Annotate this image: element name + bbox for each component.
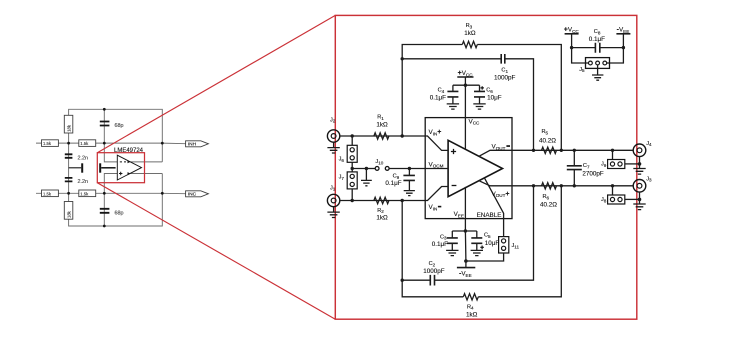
jumper J11 bbox=[499, 237, 520, 253]
wire VIN- rail bbox=[340, 200, 425, 202]
svg-text:1.5k: 1.5k bbox=[43, 191, 52, 196]
svg-text:1.5k: 1.5k bbox=[80, 141, 89, 146]
connector J1 bbox=[327, 185, 339, 206]
node C9 branch bbox=[408, 167, 411, 170]
node VEE decoupling bbox=[464, 229, 467, 232]
svg-text:LME49724: LME49724 bbox=[114, 148, 144, 154]
wire C2 loop right bbox=[435, 186, 534, 280]
resistor 1.5k input1 left bbox=[42, 140, 59, 147]
svg-text:2.2n: 2.2n bbox=[78, 179, 89, 185]
wire C2 loop bbox=[402, 201, 430, 281]
wire J6 branch vertical bbox=[351, 136, 353, 145]
node R3 join bbox=[560, 149, 563, 152]
wire R3 loop right bbox=[477, 45, 561, 151]
wire op-amp top output bbox=[130, 161, 162, 163]
svg-text:1kΩ: 1kΩ bbox=[464, 30, 476, 37]
ground below J3 bbox=[633, 192, 645, 210]
svg-text:2.2n: 2.2n bbox=[78, 155, 89, 161]
svg-text:1kΩ: 1kΩ bbox=[466, 311, 478, 318]
resistor 1.5k input1 right bbox=[79, 140, 96, 147]
connector flag INC bbox=[186, 191, 209, 198]
plus input sign bbox=[451, 149, 456, 154]
svg-text:J11: J11 bbox=[512, 243, 520, 249]
connector J4 bbox=[633, 141, 652, 157]
capacitor C6 bbox=[473, 85, 501, 109]
node C2 join bbox=[532, 184, 535, 187]
svg-text:C1: C1 bbox=[501, 68, 508, 74]
svg-text:R5: R5 bbox=[542, 129, 549, 135]
node VIN- / J7 branch bbox=[351, 199, 354, 202]
wire INH tap bbox=[162, 142, 185, 145]
svg-text:R6: R6 bbox=[543, 194, 550, 200]
power +VCC entry bbox=[564, 26, 580, 47]
node VCC decoupling bbox=[464, 84, 467, 87]
wire op-amp bottom output bbox=[130, 173, 162, 175]
wire J9 to J4 ground bbox=[625, 163, 640, 165]
wire input line 1 bbox=[36, 142, 162, 144]
wire VEE node to caps bbox=[452, 230, 477, 232]
node +VCC entry bbox=[570, 46, 573, 49]
wire lower box right edge to output bbox=[161, 174, 163, 194]
zoom diagonal bottom bbox=[97, 183, 335, 320]
node C1 join bbox=[532, 149, 535, 152]
svg-text:VOUT+: VOUT+ bbox=[492, 191, 510, 198]
svg-text:1kΩ: 1kΩ bbox=[376, 121, 388, 128]
capacitor C3 bbox=[432, 231, 459, 256]
wire J8 to J3 ground bbox=[625, 198, 640, 200]
wire R3 loop bbox=[402, 45, 462, 137]
wire lower feedback loop bottom edge bbox=[69, 193, 163, 226]
node VIN- feedback bbox=[401, 199, 404, 202]
pin VEE bbox=[454, 187, 466, 261]
wire op-amp top input bbox=[104, 143, 117, 162]
resistor R4 bbox=[463, 294, 478, 319]
zoom rectangle small bbox=[97, 153, 144, 183]
svg-text:VIN+: VIN+ bbox=[429, 129, 442, 136]
svg-text:1.5k: 1.5k bbox=[43, 141, 52, 146]
svg-text:-VEE: -VEE bbox=[617, 26, 630, 33]
svg-text:10μF: 10μF bbox=[487, 95, 502, 102]
capacitor 2.2n upper bbox=[65, 154, 88, 161]
jumper pads J10 bbox=[375, 159, 389, 170]
node VIN+ feedback bbox=[401, 134, 404, 137]
node J8 tap bbox=[611, 184, 614, 187]
svg-text:ENABLE: ENABLE bbox=[477, 212, 502, 219]
power -VEE entry bbox=[616, 26, 630, 47]
ground at VOCM bbox=[361, 169, 372, 186]
svg-text:VCC: VCC bbox=[469, 118, 481, 125]
wire upper box right edge to output bbox=[161, 143, 163, 162]
svg-text:0.1μF: 0.1μF bbox=[385, 180, 401, 187]
pin VIN- bbox=[425, 187, 448, 212]
svg-text:C2: C2 bbox=[429, 261, 436, 267]
jumper J6 bbox=[339, 145, 358, 163]
svg-text:+VCC: +VCC bbox=[564, 26, 580, 33]
capacitor C2 bbox=[423, 261, 445, 285]
svg-text:C3: C3 bbox=[440, 234, 447, 240]
svg-text:R3: R3 bbox=[466, 23, 473, 29]
pin VOUT- bbox=[479, 144, 512, 157]
wire J6 to VOCM bbox=[352, 162, 366, 168]
svg-text:J8: J8 bbox=[601, 197, 607, 203]
svg-text:J10: J10 bbox=[375, 159, 383, 165]
wire op-amp bottom input bbox=[104, 174, 117, 194]
minus input sign bbox=[452, 185, 457, 187]
wire center 2.2n chain bbox=[68, 143, 70, 193]
pin VCC bbox=[465, 85, 480, 149]
svg-text:INH: INH bbox=[188, 142, 197, 148]
resistor 18k lower bbox=[64, 202, 73, 220]
svg-text:C6: C6 bbox=[486, 88, 493, 94]
resistor 1.5k input2 right bbox=[79, 190, 96, 197]
wire J7 verticals bbox=[351, 169, 353, 201]
svg-text:VIN: VIN bbox=[429, 204, 438, 211]
op-amp box bbox=[425, 118, 512, 219]
svg-text:1.5k: 1.5k bbox=[80, 191, 89, 196]
wire VOUT+ rail bbox=[512, 185, 633, 187]
node C1 tap bbox=[401, 57, 404, 60]
svg-text:40.2Ω: 40.2Ω bbox=[540, 201, 557, 208]
svg-text:J2: J2 bbox=[330, 117, 336, 123]
node C7 top bbox=[573, 149, 576, 152]
node J6 J7 VOCM junction bbox=[351, 167, 354, 170]
wire VCC node to caps bbox=[453, 84, 480, 86]
svg-text:R1: R1 bbox=[377, 115, 384, 121]
svg-text:INC: INC bbox=[188, 192, 197, 198]
wire -VEE to J5 bbox=[607, 48, 624, 63]
svg-text:R2: R2 bbox=[377, 208, 384, 214]
power -VEE below op-amp bbox=[457, 261, 475, 278]
jumper J9 bbox=[601, 150, 625, 168]
svg-text:VOCM: VOCM bbox=[429, 161, 444, 168]
zoom rectangle big bbox=[335, 15, 637, 319]
svg-text:1kΩ: 1kΩ bbox=[376, 215, 388, 222]
node J3 shield bbox=[638, 198, 642, 202]
wire upper feedback loop top edge bbox=[69, 109, 163, 143]
ground below J5 bbox=[592, 65, 603, 80]
pin VIN+ bbox=[425, 129, 448, 151]
node J4 shield bbox=[638, 162, 642, 166]
connector J2 bbox=[327, 117, 339, 142]
svg-text:18k: 18k bbox=[67, 124, 72, 132]
wire C1 loop left bbox=[402, 58, 501, 60]
capacitor 2.2n lower bbox=[65, 178, 88, 185]
capacitor C5 bbox=[471, 231, 500, 256]
svg-text:J4: J4 bbox=[646, 141, 652, 147]
wire INC tap bbox=[162, 192, 185, 194]
wire vertical 68p branch lower bbox=[103, 193, 105, 226]
svg-text:C8: C8 bbox=[594, 29, 601, 35]
capacitor 68p upper bbox=[100, 122, 124, 130]
resistor 18k upper bbox=[64, 115, 73, 133]
ground below J2 bbox=[327, 142, 339, 153]
wire VIN+ rail bbox=[340, 135, 425, 137]
node -VEE entry bbox=[622, 46, 625, 49]
capacitor C9 bbox=[385, 169, 415, 196]
svg-text:0.1μF: 0.1μF bbox=[589, 36, 605, 43]
svg-text:40.2Ω: 40.2Ω bbox=[539, 138, 556, 145]
jumper J8 bbox=[601, 186, 625, 204]
wire R4 loop right bbox=[478, 186, 561, 297]
capacitor C7 bbox=[567, 150, 604, 186]
svg-text:R4: R4 bbox=[467, 304, 474, 310]
op-amp small triangle bbox=[117, 155, 141, 180]
wire vertical 68p branch upper bbox=[103, 109, 105, 143]
svg-text:J6: J6 bbox=[339, 157, 345, 163]
svg-text:2700pF: 2700pF bbox=[582, 170, 604, 177]
capacitor C4 bbox=[430, 85, 459, 109]
svg-text:10μF: 10μF bbox=[485, 240, 500, 247]
power +VCC above op-amp bbox=[457, 70, 473, 85]
node R4 join bbox=[560, 184, 563, 187]
ground below J1 bbox=[327, 207, 339, 218]
capacitor vocm right plate bbox=[99, 163, 115, 172]
svg-text:VEE: VEE bbox=[454, 211, 464, 218]
resistor R3 bbox=[462, 23, 477, 48]
svg-text:J7: J7 bbox=[339, 175, 345, 181]
node C2 corner bbox=[401, 279, 404, 282]
zoom diagonal top bbox=[97, 15, 335, 152]
node dots small schematic bbox=[67, 108, 164, 228]
resistor R2 bbox=[374, 197, 389, 221]
svg-text:VOUT: VOUT bbox=[492, 144, 506, 151]
jumper J5 bbox=[579, 58, 609, 74]
svg-text:68p: 68p bbox=[115, 210, 124, 216]
capacitor C1 bbox=[494, 54, 516, 82]
svg-text:C7: C7 bbox=[583, 163, 590, 169]
svg-text:J3: J3 bbox=[646, 176, 652, 182]
svg-text:1000pF: 1000pF bbox=[494, 75, 516, 82]
connector J3 bbox=[633, 176, 652, 192]
wire C1 loop right bbox=[505, 59, 534, 151]
wire J11 return bbox=[466, 253, 504, 261]
wire VOCM to J10 bbox=[366, 168, 375, 170]
svg-text:18k: 18k bbox=[67, 210, 72, 218]
svg-text:0.1μF: 0.1μF bbox=[432, 241, 448, 248]
svg-text:1000pF: 1000pF bbox=[423, 268, 445, 275]
connector flag INH bbox=[186, 141, 209, 148]
node J9 tap bbox=[611, 149, 614, 152]
svg-text:0.1μF: 0.1μF bbox=[430, 95, 446, 102]
capacitor 68p lower bbox=[100, 209, 124, 217]
resistor R6 bbox=[540, 183, 557, 209]
svg-text:J5: J5 bbox=[579, 67, 585, 73]
wire +VCC to J5 bbox=[572, 48, 589, 63]
wire R4 loop left bbox=[402, 280, 463, 297]
wire J10 to VOCM pin bbox=[389, 168, 425, 170]
resistor 1.5k input2 left bbox=[42, 190, 59, 197]
svg-text:68p: 68p bbox=[115, 123, 124, 129]
wire VOUT- rail bbox=[512, 149, 633, 151]
node C7 bottom bbox=[573, 184, 576, 187]
capacitor C8 bbox=[572, 29, 624, 53]
node -VEE bbox=[464, 259, 468, 263]
pin VOCM bbox=[425, 161, 448, 168]
pin ENABLE bbox=[477, 178, 504, 237]
svg-text:J1: J1 bbox=[330, 185, 336, 191]
wire input line 2 bbox=[36, 192, 162, 194]
svg-text:J9: J9 bbox=[601, 162, 607, 168]
node VIN+ / J6 branch bbox=[351, 134, 354, 137]
resistor R1 bbox=[374, 115, 389, 140]
pin VOUT+ bbox=[479, 181, 512, 199]
svg-text:C4: C4 bbox=[438, 88, 445, 94]
jumper J7 bbox=[339, 172, 358, 189]
resistor R5 bbox=[539, 129, 557, 154]
svg-text:-VEE: -VEE bbox=[459, 270, 472, 277]
svg-text:C9: C9 bbox=[393, 174, 400, 180]
ground below J4 bbox=[633, 157, 645, 175]
capacitor vocm left plate bbox=[69, 163, 84, 172]
node VOCM ground branch bbox=[365, 167, 368, 170]
op-amp triangle bbox=[448, 140, 502, 196]
svg-text:C5: C5 bbox=[484, 233, 491, 239]
